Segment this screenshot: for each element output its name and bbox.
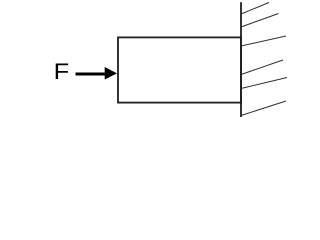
svg-text:F: F [54,60,70,85]
wall hatch 3 [241,36,286,46]
block (rectangle) [118,37,241,102]
wall hatch 5 [241,78,287,89]
wall hatch 2 [241,14,279,28]
wall hatch 6 [241,101,286,116]
force arrow F shaft [76,73,107,76]
wall hatch 1 [241,3,269,15]
wall line [240,2,242,117]
force arrow F head [105,67,117,80]
wall hatch 4 [241,60,283,75]
